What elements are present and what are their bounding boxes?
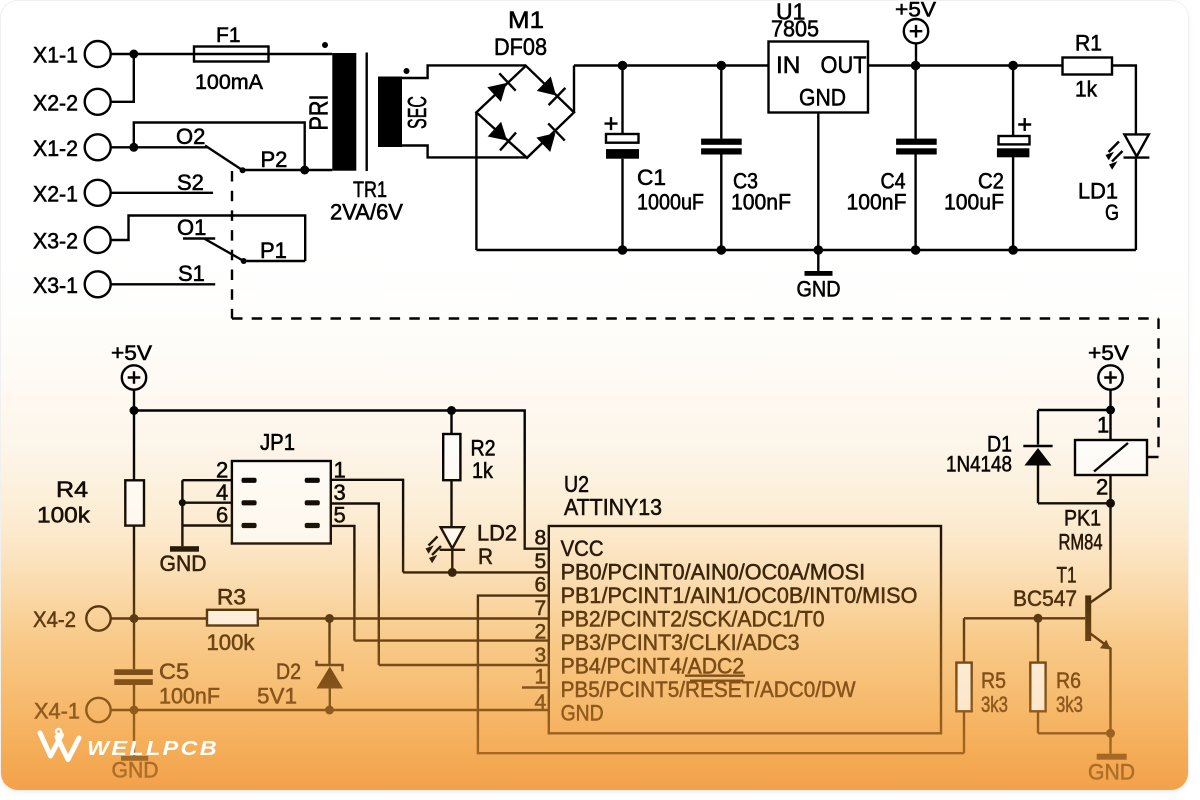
svg-text:6: 6 <box>216 503 228 528</box>
svg-text:2: 2 <box>216 458 228 483</box>
svg-text:4: 4 <box>216 480 228 505</box>
svg-text:C1: C1 <box>637 165 666 190</box>
svg-text:IN: IN <box>776 52 801 79</box>
svg-text:X2-2: X2-2 <box>33 90 78 115</box>
svg-text:X1-1: X1-1 <box>33 43 78 68</box>
svg-text:GND: GND <box>799 85 846 112</box>
svg-text:3k3: 3k3 <box>1056 692 1083 717</box>
svg-text:D2: D2 <box>276 659 301 684</box>
svg-text:1: 1 <box>535 666 547 689</box>
svg-text:OUT: OUT <box>821 52 867 79</box>
svg-text:O1: O1 <box>177 215 206 240</box>
svg-text:JP1: JP1 <box>260 429 295 455</box>
svg-text:GND: GND <box>160 551 207 576</box>
svg-text:G: G <box>1105 200 1119 225</box>
svg-text:X3-2: X3-2 <box>33 229 78 254</box>
svg-text:3: 3 <box>535 644 547 667</box>
svg-text:100k: 100k <box>37 503 91 528</box>
svg-text:1k: 1k <box>1075 77 1098 102</box>
svg-text:TR1: TR1 <box>353 177 387 202</box>
svg-text:R4: R4 <box>56 477 88 502</box>
svg-text:M1: M1 <box>508 7 544 34</box>
svg-text:X3-1: X3-1 <box>33 273 78 298</box>
svg-text:GND: GND <box>1088 760 1135 785</box>
svg-text:WELLPCB: WELLPCB <box>87 738 219 760</box>
svg-text:R: R <box>478 544 493 569</box>
svg-text:GND: GND <box>112 758 159 783</box>
svg-text:P2: P2 <box>261 147 288 172</box>
svg-text:R6: R6 <box>1056 668 1081 693</box>
svg-text:S2: S2 <box>177 170 204 195</box>
svg-text:X4-1: X4-1 <box>34 699 80 724</box>
svg-text:7: 7 <box>535 597 547 620</box>
svg-text:100nF: 100nF <box>731 190 791 215</box>
svg-text:2: 2 <box>1096 475 1108 500</box>
svg-text:X1-2: X1-2 <box>33 136 78 161</box>
svg-text:100nF: 100nF <box>159 684 220 709</box>
svg-text:100uF: 100uF <box>944 190 1004 215</box>
svg-text:P1: P1 <box>260 238 287 263</box>
svg-text:SEC: SEC <box>402 96 432 129</box>
svg-text:PB0/PCINT0/AIN0/OC0A/MOSI: PB0/PCINT0/AIN0/OC0A/MOSI <box>561 560 866 585</box>
svg-text:PB2/PCINT2/SCK/ADC1/T0: PB2/PCINT2/SCK/ADC1/T0 <box>561 607 825 632</box>
svg-text:7805: 7805 <box>771 16 819 42</box>
svg-text:2: 2 <box>535 621 547 644</box>
svg-text:R5: R5 <box>981 668 1006 693</box>
svg-text:100k: 100k <box>207 630 256 655</box>
svg-text:PB1/PCINT1/AIN1/OC0B/INT0/MISO: PB1/PCINT1/AIN1/OC0B/INT0/MISO <box>561 583 918 608</box>
svg-text:O2: O2 <box>176 124 205 149</box>
svg-text:GND: GND <box>797 277 841 302</box>
svg-text:6: 6 <box>535 574 547 597</box>
svg-text:DF08: DF08 <box>494 34 547 61</box>
svg-text:R1: R1 <box>1075 31 1102 56</box>
svg-text:C5: C5 <box>159 659 189 684</box>
svg-text:5V1: 5V1 <box>257 684 297 709</box>
svg-text:BC547: BC547 <box>1013 586 1077 611</box>
svg-text:F1: F1 <box>216 24 241 47</box>
svg-text:100nF: 100nF <box>847 190 907 215</box>
svg-text:X2-1: X2-1 <box>33 181 78 206</box>
svg-text:PK1: PK1 <box>1064 506 1101 531</box>
svg-text:T1: T1 <box>1057 563 1077 588</box>
svg-text:VCC: VCC <box>561 536 604 561</box>
svg-text:X4-2: X4-2 <box>33 607 76 632</box>
svg-text:+5V: +5V <box>1088 342 1129 365</box>
svg-text:LD2: LD2 <box>477 521 517 546</box>
svg-text:2VA/6V: 2VA/6V <box>330 200 403 225</box>
svg-text:S1: S1 <box>178 261 205 286</box>
svg-text:8: 8 <box>535 527 547 550</box>
svg-text:ATTINY13: ATTINY13 <box>564 494 662 520</box>
svg-text:PRI: PRI <box>304 95 334 131</box>
svg-text:3k3: 3k3 <box>981 692 1008 717</box>
svg-text:1k: 1k <box>472 458 494 483</box>
svg-text:GND: GND <box>561 701 604 726</box>
svg-text:3: 3 <box>334 480 346 505</box>
svg-text:1: 1 <box>1097 413 1109 438</box>
svg-text:1N4148: 1N4148 <box>946 452 1012 477</box>
svg-text:R2: R2 <box>471 436 496 461</box>
svg-text:1000uF: 1000uF <box>637 190 704 215</box>
svg-text:RM84: RM84 <box>1059 530 1103 555</box>
svg-text:PB3/PCINT3/CLKI/ADC3: PB3/PCINT3/CLKI/ADC3 <box>561 630 800 655</box>
svg-text:5: 5 <box>535 550 547 573</box>
svg-text:R3: R3 <box>217 585 246 610</box>
svg-text:+5V: +5V <box>111 342 152 365</box>
svg-text:100mA: 100mA <box>195 71 263 94</box>
svg-text:5: 5 <box>334 503 346 528</box>
